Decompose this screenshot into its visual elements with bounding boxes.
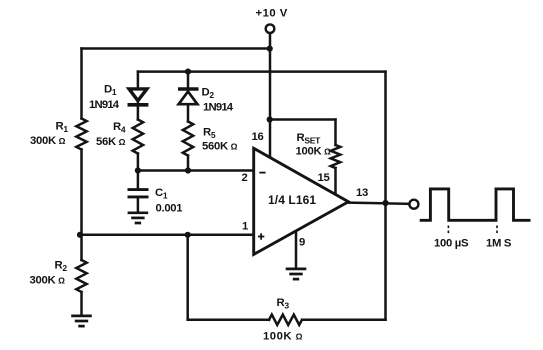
- terminal: output: [409, 200, 418, 209]
- junction node: D2 anode rail: [185, 69, 191, 75]
- svg-text:300K Ω: 300K Ω: [30, 135, 66, 147]
- wire: D1 branch vertical: [137, 72, 140, 120]
- junction node: pin1 rail / R1-R2 column: [77, 232, 83, 238]
- resistor R3: [269, 315, 302, 325]
- terminal: +10V supply: [266, 24, 275, 33]
- svg-text:15: 15: [318, 172, 330, 184]
- op-amp minus sign: [259, 172, 265, 174]
- wire: right feedback vertical x=385.5: [384, 72, 387, 320]
- wire: RSET top horizontal from pin16 node: [270, 118, 336, 121]
- op-amp plus sign: [258, 233, 264, 239]
- wire: pin 9 down to ground: [295, 231, 298, 268]
- junction node: pin1 rail / bottom drop: [185, 232, 191, 238]
- svg-text:1N914: 1N914: [89, 99, 120, 111]
- svg-text:0.001: 0.001: [156, 203, 183, 215]
- wire: top rail from R1 top to +10V drop: [82, 47, 271, 50]
- svg-text:560K Ω: 560K Ω: [202, 141, 238, 153]
- ground (pin 9): [286, 269, 307, 279]
- wire: left column through R1 and R2: [80, 49, 83, 119]
- wire: pin1 node drop to bottom rail: [186, 235, 189, 320]
- wire: R5 bottom to pin2 rail: [187, 156, 190, 171]
- wire: op-amp output to terminal: [348, 203, 409, 204]
- diode D1 (anode top, cathode bar below): [128, 89, 149, 105]
- wire: bottom rail left of R3: [188, 319, 269, 322]
- svg-text:1N914: 1N914: [203, 102, 234, 114]
- svg-text:13: 13: [356, 187, 368, 199]
- svg-text:100K Ω: 100K Ω: [263, 331, 303, 343]
- resistor R4: [133, 120, 143, 154]
- diode D2 (cathode bar top, anode below): [178, 89, 199, 104]
- svg-text:+10 V: +10 V: [256, 8, 288, 20]
- wire: pin 1 input rail: [80, 234, 254, 237]
- resistor R2: [76, 260, 86, 292]
- ground (C1): [128, 213, 149, 223]
- svg-text:56K Ω: 56K Ω: [96, 136, 126, 148]
- resistor R5: [183, 122, 193, 156]
- svg-text:100K Ω: 100K Ω: [296, 146, 332, 158]
- wire: R1 bottom to pin1 rail: [80, 150, 83, 261]
- svg-text:1: 1: [242, 221, 248, 233]
- svg-text:1M S: 1M S: [486, 238, 512, 250]
- wire: RSET lower lead to pin 15: [334, 168, 337, 195]
- wire: RSET upper lead: [334, 120, 337, 146]
- wire: R2 bottom to ground: [80, 292, 83, 315]
- junction node: top rail / +10V: [267, 46, 273, 52]
- wire: bottom rail right of R3: [302, 319, 386, 322]
- output waveform trace: [420, 189, 531, 220]
- svg-text:9: 9: [299, 237, 305, 249]
- junction node: pin2 rail / R4 / C1: [135, 167, 141, 173]
- svg-text:1/4 L161: 1/4 L161: [268, 193, 316, 207]
- wire: anode rail y=71.6 from D1 to right vertical: [138, 70, 386, 73]
- svg-text:16: 16: [252, 131, 264, 143]
- wire: D2 branch vertical: [187, 72, 190, 122]
- op-amp U1 1/4 L161: [254, 148, 349, 254]
- wire: C1 top lead: [137, 171, 140, 190]
- capacitor C1 plates: [128, 190, 149, 197]
- wire: R4 bottom to pin2 rail: [137, 154, 140, 171]
- junction node: pin16 / RSET: [267, 116, 273, 122]
- svg-text:100 µS: 100 µS: [434, 238, 469, 250]
- wire: +10V vertical drop to pin 16: [269, 33, 272, 157]
- resistor RSET: [331, 145, 341, 168]
- junction node: pin2 rail / R5: [185, 167, 191, 173]
- wire: pin 2 input rail: [138, 169, 254, 172]
- waveform dashed tick 100us: [447, 226, 449, 236]
- junction node: output / feedback: [382, 200, 388, 206]
- ground (R2): [71, 316, 92, 326]
- waveform dashed tick 1ms: [496, 226, 498, 236]
- svg-text:2: 2: [242, 172, 248, 184]
- wire: C1 bottom lead to ground: [137, 198, 140, 212]
- svg-text:300K Ω: 300K Ω: [30, 275, 66, 287]
- resistor R1: [76, 119, 86, 150]
